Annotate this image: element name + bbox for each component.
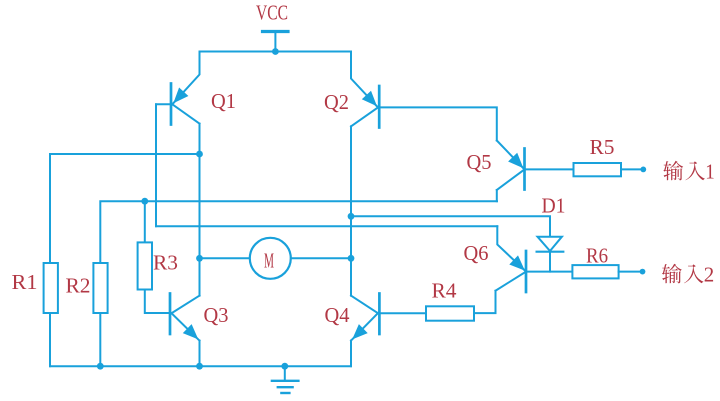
wire Q5 base to R5 <box>525 168 574 170</box>
transistor Q1 <box>170 84 173 125</box>
resistor R4 <box>426 306 474 320</box>
transistor Q6 <box>525 251 528 292</box>
wire motor right <box>291 257 351 259</box>
wire bottom rail <box>50 365 351 367</box>
svg-text:R2: R2 <box>66 274 91 298</box>
node diode branch <box>348 213 355 220</box>
wire R5 to terminal <box>621 168 641 170</box>
node input1 terminal <box>640 167 646 173</box>
svg-text:R3: R3 <box>153 251 178 275</box>
diode D1 <box>538 237 562 251</box>
node motor right <box>348 255 355 262</box>
transistor Q5 <box>523 149 526 190</box>
wire R1 bottom <box>49 313 51 366</box>
svg-text:M: M <box>264 249 274 273</box>
svg-text:2: 2 <box>704 263 715 287</box>
svg-text:R4: R4 <box>432 279 458 303</box>
wire bus y1 (R2 top rail) <box>100 201 497 263</box>
node R2 bottom <box>97 363 104 370</box>
svg-text:Q1: Q1 <box>211 89 236 113</box>
wire R6 to terminal <box>619 271 640 273</box>
transistor Q3 <box>169 294 172 335</box>
node motor left <box>196 255 203 262</box>
svg-text:R6: R6 <box>586 244 608 268</box>
resistor R3 <box>138 242 152 289</box>
resistor R6 <box>572 265 618 278</box>
wire R3 top <box>144 201 146 242</box>
wire Q1 base down to input bus <box>155 104 157 226</box>
wire color group <box>44 32 647 394</box>
wire R1 top to Q1 collector <box>50 154 200 263</box>
wire R2 bottom <box>99 313 101 366</box>
resistor R5 <box>574 163 622 176</box>
svg-text:Q4: Q4 <box>325 303 350 327</box>
VCC power symbol <box>263 30 289 33</box>
label input1 输入1 <box>663 161 683 181</box>
transistor Q4 <box>378 294 381 335</box>
svg-text:Q5: Q5 <box>467 150 492 174</box>
wire Q2 collector vertical <box>350 126 352 295</box>
wire Q4 emitter down <box>350 341 352 367</box>
svg-text:R5: R5 <box>590 135 615 159</box>
node Q1 collector / R1 <box>196 151 203 158</box>
wire Q6 collector to R4 <box>474 291 495 313</box>
svg-text:Q2: Q2 <box>324 90 349 114</box>
wire motor left <box>200 257 250 259</box>
wire top rail <box>200 51 352 53</box>
wire Q3 emitter down <box>199 341 201 367</box>
node VCC junction <box>272 48 279 55</box>
svg-text:D1: D1 <box>542 194 566 218</box>
svg-text:VCC: VCC <box>256 1 288 25</box>
wire R3 bottom to Q3 base <box>145 290 170 314</box>
node input2 terminal <box>640 269 646 275</box>
svg-text:R1: R1 <box>12 270 38 294</box>
svg-text:Q3: Q3 <box>204 303 229 327</box>
node Q3 emitter <box>196 363 203 370</box>
wire bus y2 to diode <box>351 216 550 236</box>
transistor Q2 <box>378 86 381 128</box>
wire Q1 collector vertical <box>199 124 201 296</box>
node ground tap <box>281 363 288 370</box>
label input2 输入2 <box>662 264 682 284</box>
wire Q4 base to R4 <box>379 312 426 314</box>
node R3 tap <box>141 198 148 205</box>
ground <box>284 366 286 380</box>
resistor R2 <box>93 263 107 313</box>
wire Q6 base to R6 <box>526 271 572 273</box>
resistor R1 <box>44 263 58 313</box>
motor M circle <box>250 238 291 279</box>
wire Q2 base to Q5 emitter <box>379 107 497 140</box>
svg-text:1: 1 <box>705 160 715 184</box>
wire Q5 collector to bus y1 <box>496 190 498 201</box>
wire bus y3 (Q1 base to Q6 emitter) <box>156 225 497 227</box>
svg-text:Q6: Q6 <box>464 241 489 265</box>
